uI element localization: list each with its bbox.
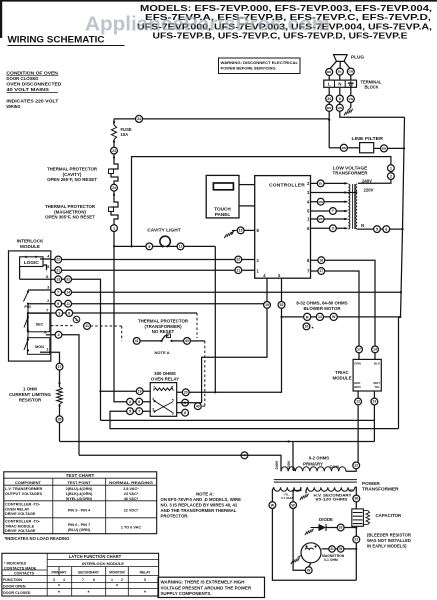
svg-text:INTERLOCK: INTERLOCK: [17, 239, 44, 244]
svg-text:R: R: [306, 315, 309, 319]
svg-text:3: 3: [278, 273, 281, 278]
svg-text:34: 34: [327, 97, 331, 101]
wire circle 5 on N row: [374, 226, 381, 233]
LVT primary winding: [348, 184, 350, 229]
svg-text:WIRING SCHEMATIC: WIRING SCHEMATIC: [8, 35, 106, 45]
svg-text:LOGIC: LOGIC: [24, 260, 40, 266]
svg-text:PIN 6 - PIN 7: PIN 6 - PIN 7: [68, 523, 90, 527]
svg-text:POWER BEFORE SERVICING.: POWER BEFORE SERVICING.: [221, 65, 277, 70]
current limiting resistor 1 ohm: [57, 387, 63, 404]
svg-text:32: 32: [280, 303, 284, 307]
capacitor C1: [352, 509, 364, 526]
wire line filter box to output circle: [374, 147, 381, 149]
svg-text:3: 3: [307, 190, 310, 195]
svg-text:THERMAL PROTECTOR: THERMAL PROTECTOR: [138, 319, 189, 324]
terminal block: [324, 80, 357, 87]
wire touch panel to controller lower: [239, 205, 255, 207]
interlock pin 1 wire: [40, 351, 51, 353]
svg-text:7: 7: [46, 308, 49, 313]
svg-text:LOW VOLTAGE: LOW VOLTAGE: [333, 165, 368, 170]
svg-text:9: 9: [172, 412, 174, 416]
svg-text:21: 21: [236, 268, 240, 272]
svg-text:2: 2: [390, 174, 392, 178]
svg-text:9: 9: [148, 245, 150, 249]
svg-text:*: *: [144, 591, 146, 597]
svg-text:22 VDC*: 22 VDC*: [124, 508, 139, 512]
page left corner mark: [0, 0, 2, 38]
svg-text:OPEN 305°F, NO RESET: OPEN 305°F, NO RESET: [45, 215, 95, 220]
wire N column down and right to bus: [340, 111, 405, 117]
LVT secondary winding: [356, 184, 358, 229]
mains ground symbol: [348, 108, 351, 111]
svg-text:41: 41: [135, 339, 139, 343]
svg-text:DIODE: DIODE: [319, 517, 333, 522]
oven relay coil: [154, 388, 174, 391]
svg-text:TRIAC: TRIAC: [335, 370, 349, 375]
svg-text:MODULE: MODULE: [20, 244, 40, 249]
svg-text:65-120 OHMS: 65-120 OHMS: [316, 498, 349, 502]
svg-text:CONDITION OF OVEN: CONDITION OF OVEN: [6, 71, 58, 76]
wire line filter output to right bus: [388, 147, 405, 149]
svg-text:* INDICATES: * INDICATES: [4, 561, 27, 565]
power transformer core lines: [274, 479, 357, 481]
wire controller pin 4 to LVT (BN): [311, 201, 348, 203]
svg-text:MODULE: MODULE: [332, 376, 351, 381]
power transformer 240V tap: [79, 455, 281, 471]
svg-text:BLOWER MOTOR: BLOWER MOTOR: [304, 306, 342, 311]
filament secondary winding: [274, 487, 301, 491]
wire 13 drop: [373, 405, 375, 442]
svg-text:GRN: GRN: [354, 362, 360, 366]
svg-text:NO. 3 IS REPLACED BY WIRES 40,: NO. 3 IS REPLACED BY WIRES 40, 41: [161, 503, 238, 508]
wire ground to diode: [316, 527, 319, 529]
wires terminal block to lower circles: [328, 87, 330, 95]
svg-text:6: 6: [93, 578, 95, 582]
svg-text:13: 13: [373, 400, 377, 404]
svg-text:1: 1: [307, 217, 310, 222]
svg-text:SEC: SEC: [36, 322, 44, 326]
fuse 10A symbol: [111, 125, 116, 140]
interlock pin 4 wire to edge: [40, 258, 51, 260]
wire 4 row to drop: [51, 335, 79, 456]
wire circle 33 to capacitor junction: [344, 527, 356, 529]
svg-text:8: 8: [257, 228, 260, 233]
wire circle 19 on pin 4 drop: [264, 302, 271, 309]
wire circle 9 at lamp: [146, 243, 153, 250]
HV secondary ground: [306, 487, 308, 493]
svg-text:12: 12: [356, 400, 360, 404]
svg-text:FUNCTION: FUNCTION: [3, 578, 22, 582]
svg-text:INTERLOCK MODULE: INTERLOCK MODULE: [82, 561, 124, 566]
cavity light lamp symbol: [160, 236, 170, 246]
svg-text:14: 14: [318, 315, 322, 319]
wire circle 6 on N row: [383, 226, 390, 233]
svg-text:5(YEL)-6(ORN): 5(YEL)-6(ORN): [66, 497, 93, 501]
blower motor circle 14: [316, 313, 323, 320]
wire circle 36: [353, 495, 360, 502]
svg-text:COMPONENT: COMPONENT: [15, 480, 42, 485]
wire controller pin 3 to LVT 220V tap: [311, 192, 357, 194]
svg-text:BN: BN: [382, 146, 386, 150]
right bus vertical lower to bottom loop: [399, 317, 401, 428]
right bus vertical upper (N feed): [401, 117, 405, 317]
wire to line filter box: [347, 147, 359, 149]
diode ground: [305, 529, 314, 536]
wire circle 27 to resistor: [59, 370, 61, 387]
wire circle 12 at triac output: [355, 398, 362, 405]
wire circle Y: [330, 208, 337, 215]
svg-text:WAS NOT INSTALLED: WAS NOT INSTALLED: [367, 538, 411, 543]
wire circle 40 to dashed drop: [190, 340, 204, 342]
svg-text:N: N: [338, 81, 341, 86]
svg-text:8: 8: [68, 311, 70, 315]
svg-text:40 VOLT MAINS: 40 VOLT MAINS: [6, 87, 49, 92]
svg-text:40: 40: [185, 339, 189, 343]
wire circle 21 right: [235, 267, 242, 274]
svg-text:1: 1: [113, 226, 115, 230]
wire circle 40 upper: [184, 338, 191, 345]
plug wire circle BN: [326, 69, 333, 76]
wire L feed to relay contacts 2/6: [114, 246, 150, 401]
interlock internal common vertical: [27, 304, 29, 340]
wire circle 6 at oven relay: [136, 398, 143, 405]
svg-text:4: 4: [152, 397, 154, 401]
svg-text:23: 23: [112, 149, 116, 153]
svg-text:DRIVE VOLTAGE: DRIVE VOLTAGE: [5, 512, 36, 516]
controller box U1: [255, 176, 311, 279]
svg-text:2: 2: [129, 400, 131, 404]
svg-text:CONTROLLER: CONTROLLER: [269, 182, 305, 188]
wire circle BK: [317, 216, 324, 223]
svg-text:13: 13: [56, 278, 60, 282]
svg-text:MON: MON: [35, 345, 44, 349]
wire controller pin 1 to LVT (BK): [311, 218, 348, 220]
wire diode to circle 33: [326, 527, 337, 529]
svg-text:5: 5: [47, 264, 50, 269]
svg-text:15: 15: [239, 229, 243, 233]
svg-text:5: 5: [307, 209, 310, 214]
svg-text:1(BLK)-4(ORN): 1(BLK)-4(ORN): [66, 492, 94, 496]
wire circle 23: [111, 147, 118, 154]
svg-text:7: 7: [57, 291, 59, 295]
svg-text:5: 5: [376, 227, 378, 231]
svg-text:L.V. TRANSFORMER: L.V. TRANSFORMER: [5, 487, 42, 491]
svg-text:RELAY: RELAY: [140, 570, 152, 574]
wires plug circles to terminal block: [328, 76, 330, 81]
wire circle 32: [65, 276, 72, 283]
wire circle O: [330, 225, 337, 232]
wire circle 2 at oven relay: [127, 398, 134, 405]
svg-text:11: 11: [179, 245, 183, 249]
svg-text:N: N: [361, 223, 364, 228]
thermal protector (cavity) switch symbol: [111, 161, 119, 170]
svg-text:(TRANSFORMER): (TRANSFORMER): [144, 324, 182, 329]
wire circle 31 down to filament loop: [355, 543, 357, 580]
latch function chart table: [2, 553, 159, 596]
diode D1: [319, 524, 327, 531]
touch panel display window: [213, 183, 233, 190]
wire filament W left bottom loop to circle 31 leg: [272, 509, 356, 581]
wire circle 17 at triac input: [356, 346, 363, 353]
plug wire circle GN: [347, 68, 354, 75]
svg-text:SUPPLY COMPONENTS.: SUPPLY COMPONENTS.: [161, 591, 212, 596]
oven relay box K1: [150, 383, 177, 417]
svg-text:BL: BL: [319, 181, 323, 185]
svg-text:1 TO 6 VAC: 1 TO 6 VAC: [121, 526, 142, 530]
svg-text:36: 36: [354, 497, 358, 501]
svg-text:0-1 OHM: 0-1 OHM: [324, 558, 338, 562]
svg-text:W: W: [307, 568, 311, 572]
wire circle 15: [237, 227, 244, 234]
svg-text:OPEN 265°F, NO RESET: OPEN 265°F, NO RESET: [47, 177, 97, 182]
wire relay circle 3 to pin4 drop: [177, 402, 202, 404]
svg-text:W: W: [332, 315, 336, 319]
svg-text:L: L: [328, 81, 331, 86]
svg-text:CAVITY LIGHT: CAVITY LIGHT: [147, 228, 181, 233]
HV secondary winding: [308, 487, 355, 491]
crossed-out circle 3 (dashed alternative): [73, 316, 80, 323]
power transformer 220V tap: [292, 442, 294, 471]
thermal protector transformer switch symbol: [162, 336, 169, 341]
wire circle 41 to protector switch: [140, 340, 160, 342]
test chart table: [4, 472, 157, 534]
svg-text:OVEN DISCONNECTED: OVEN DISCONNECTED: [6, 82, 62, 87]
wire circle 11 at lamp: [177, 243, 184, 250]
wire circle 41 lower: [133, 338, 140, 345]
wire relay circle 8 stub: [177, 412, 182, 414]
svg-text:8: 8: [339, 97, 341, 101]
svg-text:BN: BN: [327, 106, 331, 110]
wire circle 21 left: [55, 267, 62, 274]
svg-text:IN EARLY MODELS): IN EARLY MODELS): [367, 543, 407, 548]
LVT terminal circle 2: [388, 173, 395, 180]
svg-text:10A: 10A: [121, 132, 129, 137]
wire circle 16: [318, 257, 325, 264]
wire capacitor bottom to circle 31: [355, 526, 357, 536]
svg-text:DOOR CLOSED: DOOR CLOSED: [6, 76, 39, 81]
svg-text:46 VAC*: 46 VAC*: [124, 497, 139, 501]
svg-text:PRIMARY: PRIMARY: [303, 462, 323, 467]
svg-text:*: *: [312, 327, 315, 333]
wire circle 27: [56, 363, 63, 370]
line filter input circle BN: [340, 144, 347, 151]
wire circle 17: [318, 268, 325, 275]
svg-text:35: 35: [58, 418, 62, 422]
svg-text:RESISTOR: RESISTOR: [19, 397, 42, 402]
svg-text:OVEN RELAY: OVEN RELAY: [151, 377, 179, 382]
plug lead wires: [330, 61, 337, 68]
svg-text:BN: BN: [342, 146, 346, 150]
svg-text:12: 12: [354, 464, 358, 468]
line filter box: [360, 143, 374, 153]
svg-text:4: 4: [47, 253, 50, 258]
wire circle 33: [337, 524, 344, 531]
svg-text:300 OHMS: 300 OHMS: [154, 371, 176, 376]
svg-text:1: 1: [46, 347, 49, 352]
svg-text:27: 27: [58, 365, 62, 369]
svg-text:NORMAL READING: NORMAL READING: [109, 481, 153, 485]
svg-text:2: 2: [307, 181, 310, 186]
svg-text:*: *: [116, 584, 118, 590]
svg-text:BN: BN: [319, 200, 323, 204]
plug wire circle BL: [336, 68, 343, 75]
svg-text:20: 20: [184, 391, 188, 395]
warning box: disconnect electrical power: [219, 58, 301, 74]
svg-text:BLU: BLU: [374, 362, 380, 366]
interlock pin 2 wire: [28, 303, 51, 305]
svg-text:14: 14: [66, 290, 70, 294]
wire circle 4 on bottom rail: [241, 452, 248, 459]
svg-text:AND THE TRANSFORMER THERMAL: AND THE TRANSFORMER THERMAL: [161, 508, 237, 513]
svg-text:O: O: [332, 227, 335, 231]
svg-text:PROTECTOR.: PROTECTOR.: [161, 513, 189, 518]
svg-text:THERMAL PROTECTOR: THERMAL PROTECTOR: [45, 204, 96, 209]
filament winding leads to W circles: [272, 487, 273, 501]
wire circle 32 on pin 3 drop: [278, 302, 285, 309]
wire circle 14: [65, 289, 72, 296]
svg-text:W: W: [291, 503, 295, 507]
wire 12 drop to power transformer: [357, 405, 359, 462]
svg-text:4: 4: [263, 273, 266, 278]
svg-text:6: 6: [138, 400, 140, 404]
wire circle 9: [55, 300, 62, 307]
blower motor circle R: [304, 313, 311, 320]
interlock pin 8 internal wire: [20, 278, 51, 280]
svg-text:W: W: [271, 503, 275, 507]
svg-text:BN: BN: [338, 106, 342, 110]
svg-text:MODELS: EFS-7EVP.000, EFS-7EVP: MODELS: EFS-7EVP.000, EFS-7EVP.003, EFS-…: [140, 4, 432, 13]
svg-text:8: 8: [171, 385, 173, 389]
terminal circle GN under ground: [347, 96, 354, 103]
wire bottom rail from circle 35 to wire-13 (220V feed): [60, 441, 375, 443]
svg-text:AppliancePartsPros.com: AppliancePartsPros.com: [85, 14, 330, 36]
svg-text:7: 7: [153, 385, 155, 389]
svg-text:TOUCH: TOUCH: [214, 206, 231, 211]
wire circle 14 at triac input: [372, 346, 379, 353]
svg-text:3: 3: [47, 285, 50, 290]
svg-text:LINE FILTER: LINE FILTER: [352, 136, 384, 141]
svg-text:WARNING: THERE IS EXTREMELY HI: WARNING: THERE IS EXTREMELY HIGH: [161, 580, 245, 585]
wire circle 12 to primary COM end: [346, 469, 356, 472]
filament circle W right: [290, 502, 297, 509]
svg-text:OUTPUT VOLTAGES: OUTPUT VOLTAGES: [5, 492, 42, 496]
wire LVT N row to right bus: [357, 228, 402, 230]
wire circle 20 at oven relay: [182, 389, 189, 396]
svg-text:BRN: BRN: [354, 385, 360, 389]
svg-text:23 VAC*: 23 VAC*: [124, 492, 139, 496]
triac module box: [353, 359, 381, 391]
svg-text:*INDICATES NO LOAD READING: *INDICATES NO LOAD READING: [5, 536, 70, 541]
bleeder resistor across capacitor: [363, 510, 367, 512]
svg-text:CONTROLLER -TO-: CONTROLLER -TO-: [5, 520, 41, 524]
wire circle 41 upper: [84, 323, 91, 330]
wire circle 8 at oven relay: [182, 409, 189, 416]
svg-text:6: 6: [385, 227, 387, 231]
wire circle 40 at oven relay (dashed alt): [194, 403, 201, 410]
svg-text:CONTROLLER -TO-: CONTROLLER -TO-: [5, 503, 41, 507]
oven relay contact diagonals: [155, 401, 173, 413]
wire top rail to low voltage transformer circle 1: [132, 157, 391, 247]
wire circle 11: [65, 300, 72, 307]
svg-text:31: 31: [354, 538, 358, 542]
interlock pin 5 wire to edge: [43, 265, 47, 270]
line filter output circle BN: [381, 145, 388, 152]
blower motor row wire: [282, 316, 401, 318]
svg-text:8: 8: [46, 274, 49, 279]
svg-text:OVEN RELAY: OVEN RELAY: [5, 507, 30, 511]
wire L column down to junction: [328, 111, 330, 148]
svg-text:PANEL: PANEL: [215, 212, 231, 217]
wire HV to circle 36: [355, 487, 357, 495]
LVT terminal circle 1: [388, 165, 395, 172]
svg-text:VOLTAGE PRESENT AROUND THE POW: VOLTAGE PRESENT AROUND THE POWER: [161, 585, 252, 590]
secondary interlock switch box: [27, 313, 49, 332]
wire circle 20 below motor: [303, 323, 310, 330]
plug symbol: [334, 55, 348, 62]
wire stubs between terminal circle rows: [328, 102, 330, 104]
wire controller pin 4 drop: [202, 278, 267, 403]
wire 19 row to oven relay: [101, 390, 151, 392]
wire circle 13 at triac output: [371, 398, 378, 405]
wire controller pin 3 drop: [177, 278, 282, 392]
wire filament W right to magnetron: [293, 509, 305, 571]
wire touch panel to controller upper: [239, 184, 255, 186]
svg-text:5: 5: [144, 578, 146, 582]
wire circle 24: [111, 184, 118, 191]
wire 13/32 drop bottom rail to wire-13 drop: [101, 419, 375, 421]
wires triac circles to module box: [358, 353, 360, 360]
wire 21 row interlock to controller pin 1: [51, 269, 255, 271]
svg-text:7: 7: [138, 410, 140, 414]
svg-text:TEST CHART: TEST CHART: [66, 473, 95, 478]
dashed wire 40 drop to oven relay: [204, 341, 206, 406]
svg-text:9: 9: [57, 302, 59, 306]
svg-text:2: 2: [121, 578, 123, 582]
svg-text:THERMAL PROTECTOR: THERMAL PROTECTOR: [47, 167, 98, 172]
svg-text:2: 2: [47, 298, 50, 303]
wire circle 22 right: [235, 256, 242, 263]
thermal protector (magnetron) switch symbol: [111, 199, 119, 208]
svg-text:1: 1: [390, 166, 392, 170]
svg-text:16: 16: [319, 258, 323, 262]
interlock pin 7 wire: [28, 312, 51, 314]
svg-text:3: 3: [58, 311, 60, 315]
svg-text:DOOR CLOSED: DOOR CLOSED: [3, 591, 31, 595]
svg-text:20: 20: [305, 325, 309, 329]
page top border line: [0, 0, 437, 2]
terminal circle 34 under L: [326, 95, 333, 102]
wire circle 36 to capacitor: [355, 502, 357, 509]
svg-text:17: 17: [319, 269, 323, 273]
wire circle 15 to controller pin 8: [244, 229, 255, 231]
svg-text:4: 4: [307, 199, 310, 204]
svg-text:GN: GN: [349, 97, 353, 101]
svg-text:17: 17: [357, 348, 361, 352]
wire 22 row interlock to controller pin 2: [51, 259, 255, 261]
terminal circle BN lower mid: [336, 104, 343, 111]
wire controller pin 6 to LVT (O): [311, 227, 348, 229]
wire 3/8 row (replaced by 40/41): [51, 312, 197, 314]
logic box: [20, 257, 43, 267]
interlock pin 6 wire: [46, 334, 51, 336]
svg-text:CURRENT LIMITING: CURRENT LIMITING: [9, 392, 52, 397]
svg-text:6: 6: [307, 226, 310, 231]
svg-text:240V: 240V: [275, 460, 279, 469]
wire circle 31 at magnetron: [329, 546, 335, 552]
wire top of fuse chain: [113, 119, 115, 125]
wire circle 13: [55, 276, 62, 283]
svg-text:ON EFS-7EVP.0 AND .D MODELS, W: ON EFS-7EVP.0 AND .D MODELS, WIRE: [161, 497, 242, 502]
